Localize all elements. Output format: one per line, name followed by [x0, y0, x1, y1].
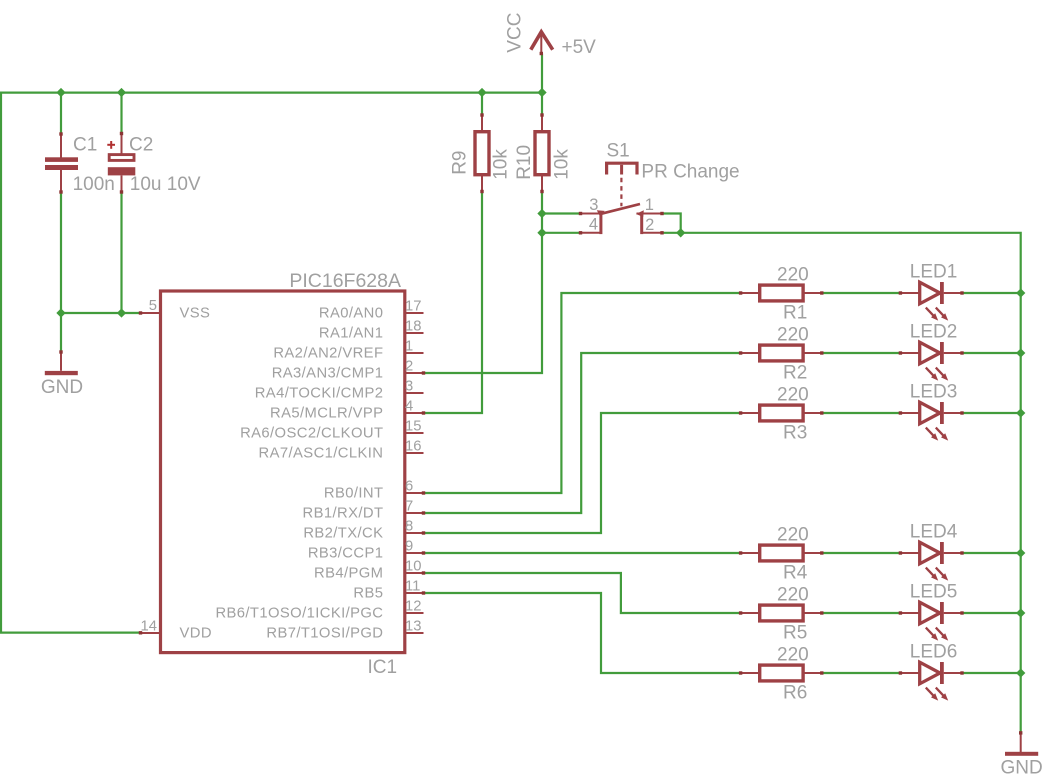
svg-text:12: 12	[405, 598, 421, 614]
svg-text:5: 5	[149, 298, 157, 314]
svg-text:RB7/T1OSI/PGD: RB7/T1OSI/PGD	[266, 626, 383, 642]
svg-text:10: 10	[405, 558, 421, 574]
svg-text:3: 3	[589, 196, 598, 214]
svg-text:13: 13	[405, 618, 421, 634]
svg-text:220: 220	[777, 384, 809, 405]
svg-text:LED4: LED4	[910, 522, 958, 543]
svg-text:C2: C2	[129, 135, 153, 156]
svg-text:RB6/T1OSO/1ICKI/PGC: RB6/T1OSO/1ICKI/PGC	[215, 606, 383, 622]
svg-text:PR Change: PR Change	[641, 162, 739, 183]
svg-text:R3: R3	[783, 422, 807, 443]
svg-text:LED1: LED1	[910, 262, 958, 283]
svg-text:+5V: +5V	[562, 37, 597, 58]
svg-text:14: 14	[141, 618, 157, 634]
svg-text:17: 17	[405, 298, 421, 314]
svg-text:R6: R6	[783, 682, 807, 703]
svg-text:R9: R9	[449, 151, 470, 175]
svg-text:RB0/INT: RB0/INT	[324, 486, 384, 502]
svg-text:220: 220	[777, 524, 809, 545]
svg-text:VCC: VCC	[504, 13, 525, 53]
svg-text:PIC16F628A: PIC16F628A	[289, 270, 401, 292]
svg-text:9: 9	[405, 538, 413, 554]
svg-text:10k: 10k	[552, 149, 573, 180]
svg-text:RB5: RB5	[353, 586, 383, 602]
svg-text:S1: S1	[607, 141, 630, 162]
svg-text:C1: C1	[73, 135, 97, 156]
svg-text:2: 2	[405, 358, 413, 374]
svg-text:RB2/TX/CK: RB2/TX/CK	[303, 526, 383, 542]
svg-text:100n: 100n	[73, 174, 115, 195]
svg-text:R10: R10	[514, 145, 535, 180]
svg-text:R4: R4	[783, 562, 808, 583]
svg-text:1: 1	[645, 196, 654, 214]
svg-text:VSS: VSS	[180, 306, 211, 322]
svg-text:LED5: LED5	[910, 582, 958, 603]
svg-text:RA5/MCLR/VPP: RA5/MCLR/VPP	[270, 406, 383, 422]
svg-text:RA4/TOCKI/CMP2: RA4/TOCKI/CMP2	[255, 386, 384, 402]
svg-text:10u 10V: 10u 10V	[130, 174, 201, 195]
svg-text:18: 18	[405, 318, 421, 334]
svg-text:RB1/RX/DT: RB1/RX/DT	[303, 506, 384, 522]
svg-text:LED6: LED6	[910, 642, 958, 663]
svg-text:RA0/AN0: RA0/AN0	[319, 306, 383, 322]
svg-text:16: 16	[405, 438, 421, 454]
svg-text:11: 11	[405, 578, 420, 594]
svg-text:1: 1	[405, 338, 413, 354]
svg-text:3: 3	[405, 378, 413, 394]
svg-text:220: 220	[777, 584, 809, 605]
svg-text:4: 4	[405, 398, 413, 414]
svg-text:IC1: IC1	[368, 657, 398, 678]
svg-text:2: 2	[645, 216, 654, 234]
svg-text:LED2: LED2	[910, 322, 958, 343]
svg-text:R1: R1	[783, 302, 807, 323]
svg-text:RB4/PGM: RB4/PGM	[314, 566, 383, 582]
svg-text:220: 220	[777, 264, 809, 285]
svg-text:15: 15	[405, 418, 421, 434]
svg-text:RB3/CCP1: RB3/CCP1	[308, 546, 384, 562]
svg-text:10k: 10k	[491, 149, 512, 180]
svg-text:RA7/ASC1/CLKIN: RA7/ASC1/CLKIN	[259, 446, 384, 462]
svg-text:220: 220	[777, 644, 809, 665]
svg-text:6: 6	[405, 478, 413, 494]
svg-text:R5: R5	[783, 622, 807, 643]
svg-text:R2: R2	[783, 362, 807, 383]
svg-text:GND: GND	[41, 377, 83, 398]
svg-text:GND: GND	[1000, 758, 1042, 779]
svg-text:LED3: LED3	[910, 382, 958, 403]
svg-text:RA6/OSC2/CLKOUT: RA6/OSC2/CLKOUT	[240, 426, 383, 442]
svg-text:220: 220	[777, 324, 809, 345]
svg-text:7: 7	[405, 498, 413, 514]
svg-text:8: 8	[405, 518, 413, 534]
svg-text:RA2/AN2/VREF: RA2/AN2/VREF	[273, 346, 383, 362]
svg-text:4: 4	[589, 215, 598, 233]
svg-text:VDD: VDD	[180, 626, 212, 642]
svg-text:RA3/AN3/CMP1: RA3/AN3/CMP1	[272, 366, 384, 382]
svg-text:RA1/AN1: RA1/AN1	[319, 326, 383, 342]
